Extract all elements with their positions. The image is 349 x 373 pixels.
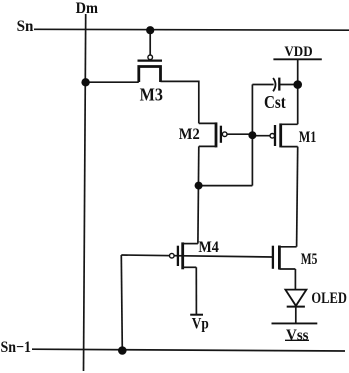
svg-text:Dm: Dm bbox=[76, 0, 99, 17]
svg-text:M2: M2 bbox=[179, 126, 200, 143]
svg-text:M5: M5 bbox=[301, 251, 318, 268]
svg-text:Cst: Cst bbox=[264, 92, 286, 112]
svg-text:Sn: Sn bbox=[17, 18, 34, 35]
svg-text:M1: M1 bbox=[299, 129, 317, 146]
svg-text:VDD: VDD bbox=[284, 44, 312, 60]
svg-text:Vp: Vp bbox=[192, 315, 209, 332]
svg-text:M3: M3 bbox=[140, 85, 163, 105]
svg-text:OLED: OLED bbox=[311, 290, 347, 307]
svg-text:Vss: Vss bbox=[286, 327, 309, 344]
svg-text:Sn−1: Sn−1 bbox=[1, 339, 32, 356]
svg-text:M4: M4 bbox=[198, 239, 219, 256]
